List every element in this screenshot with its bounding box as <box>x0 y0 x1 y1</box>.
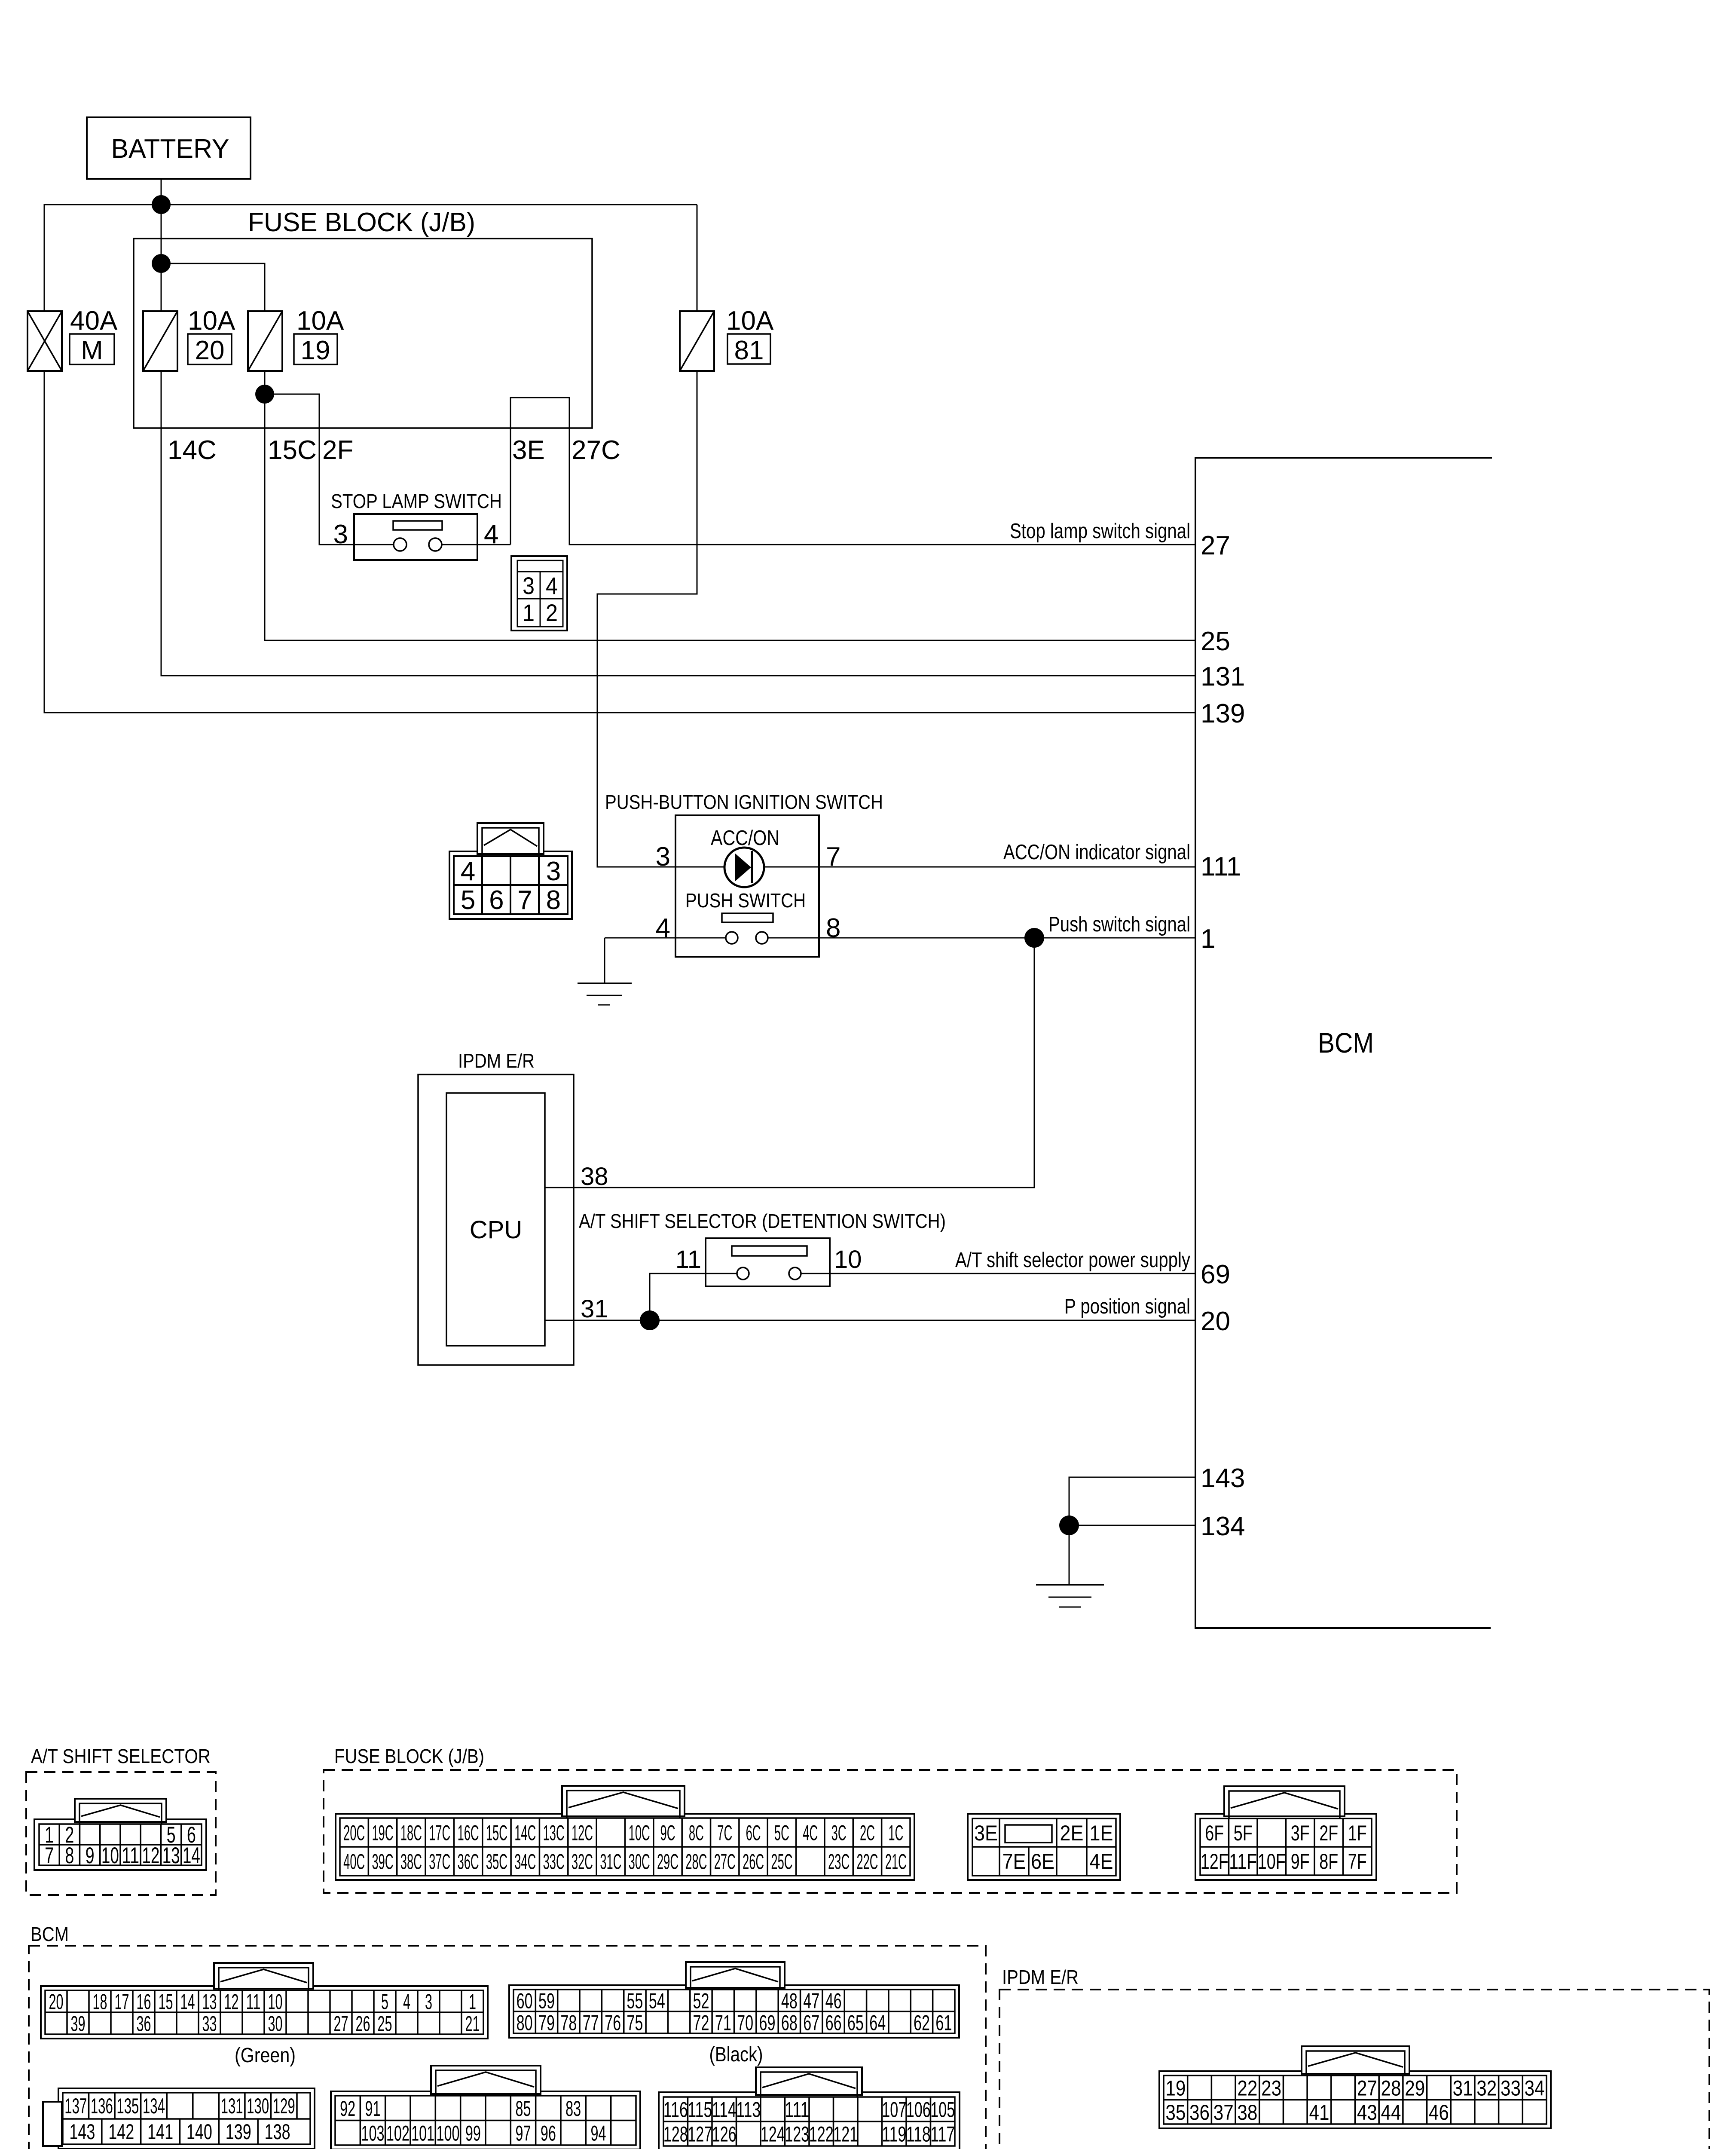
svg-text:40A: 40A <box>70 306 118 336</box>
svg-text:19: 19 <box>1165 2076 1186 2100</box>
svg-text:8: 8 <box>65 1843 74 1868</box>
svg-text:81: 81 <box>734 336 764 365</box>
svg-text:(Green): (Green) <box>235 2044 296 2067</box>
svg-text:14: 14 <box>180 1990 195 2014</box>
svg-text:41: 41 <box>1309 2100 1329 2125</box>
svg-text:11F: 11F <box>1229 1849 1257 1873</box>
svg-text:M: M <box>81 336 103 365</box>
svg-text:A/T SHIFT SELECTOR (DETENTION: A/T SHIFT SELECTOR (DETENTION SWITCH) <box>579 1210 946 1232</box>
svg-text:A/T shift selector power suppl: A/T shift selector power supply <box>955 1249 1190 1272</box>
svg-text:94: 94 <box>591 2121 606 2145</box>
svg-text:111: 111 <box>1201 852 1241 882</box>
svg-text:79: 79 <box>538 2011 555 2035</box>
svg-text:10A: 10A <box>188 306 235 336</box>
svg-text:1: 1 <box>1201 924 1215 954</box>
svg-text:1F: 1F <box>1348 1821 1367 1845</box>
svg-text:34C: 34C <box>514 1850 536 1874</box>
svg-text:13: 13 <box>162 1843 180 1868</box>
svg-text:12C: 12C <box>572 1821 593 1845</box>
svg-text:54: 54 <box>649 1989 665 2013</box>
svg-text:137: 137 <box>64 2094 87 2118</box>
svg-text:29: 29 <box>1405 2076 1425 2100</box>
svg-text:23: 23 <box>1261 2076 1281 2100</box>
svg-text:ACC/ON indicator signal: ACC/ON indicator signal <box>1003 841 1190 864</box>
svg-text:118: 118 <box>906 2122 931 2146</box>
svg-text:8: 8 <box>546 885 561 915</box>
svg-text:126: 126 <box>712 2122 737 2146</box>
svg-text:27: 27 <box>1201 531 1230 560</box>
svg-text:22C: 22C <box>856 1850 878 1874</box>
svg-text:5: 5 <box>381 1990 388 2014</box>
svg-text:140: 140 <box>186 2120 212 2144</box>
svg-text:96: 96 <box>541 2121 556 2145</box>
svg-text:13: 13 <box>202 1990 217 2014</box>
svg-text:31C: 31C <box>600 1850 621 1874</box>
svg-text:139: 139 <box>1201 699 1245 729</box>
svg-text:105: 105 <box>930 2098 955 2122</box>
svg-text:4C: 4C <box>803 1821 818 1845</box>
svg-text:43: 43 <box>1357 2100 1377 2125</box>
svg-text:47: 47 <box>803 1989 819 2013</box>
svg-text:4: 4 <box>403 1990 410 2014</box>
svg-text:14C: 14C <box>514 1821 536 1845</box>
svg-text:64: 64 <box>869 2011 886 2035</box>
svg-text:4: 4 <box>461 857 475 886</box>
svg-text:80: 80 <box>517 2011 533 2035</box>
svg-text:5C: 5C <box>774 1821 789 1845</box>
svg-text:31: 31 <box>581 1295 608 1323</box>
svg-text:21: 21 <box>465 2012 480 2036</box>
svg-text:1: 1 <box>469 1990 476 2014</box>
svg-text:16C: 16C <box>458 1821 479 1845</box>
svg-text:38: 38 <box>1237 2100 1257 2125</box>
svg-text:4: 4 <box>546 572 558 599</box>
svg-text:P position signal: P position signal <box>1064 1295 1190 1318</box>
svg-text:CPU: CPU <box>470 1216 522 1244</box>
svg-text:36: 36 <box>1189 2100 1210 2125</box>
svg-text:BCM: BCM <box>1318 1027 1374 1059</box>
svg-text:2E: 2E <box>1060 1821 1084 1845</box>
svg-text:134: 134 <box>1201 1512 1245 1541</box>
svg-text:28: 28 <box>1381 2076 1401 2100</box>
svg-text:124: 124 <box>761 2122 785 2146</box>
svg-text:ACC/ON: ACC/ON <box>711 827 779 850</box>
svg-text:1: 1 <box>523 599 535 626</box>
svg-text:9C: 9C <box>660 1821 675 1845</box>
svg-text:99: 99 <box>465 2121 481 2145</box>
svg-text:7: 7 <box>45 1843 54 1868</box>
svg-text:25C: 25C <box>771 1850 792 1874</box>
svg-text:2F: 2F <box>322 435 353 465</box>
svg-text:25: 25 <box>1201 627 1230 656</box>
svg-text:7E: 7E <box>1002 1849 1026 1873</box>
svg-text:46: 46 <box>825 1989 842 2013</box>
svg-text:44: 44 <box>1381 2100 1401 2125</box>
svg-text:6C: 6C <box>746 1821 761 1845</box>
svg-text:11: 11 <box>122 1843 139 1868</box>
svg-text:136: 136 <box>91 2094 113 2118</box>
svg-text:114: 114 <box>712 2098 737 2122</box>
svg-text:10A: 10A <box>726 306 774 336</box>
svg-text:7: 7 <box>826 842 840 872</box>
svg-text:7F: 7F <box>1348 1849 1367 1873</box>
svg-text:(Black): (Black) <box>709 2043 763 2066</box>
svg-text:68: 68 <box>781 2011 798 2035</box>
svg-text:143: 143 <box>1201 1463 1245 1493</box>
svg-text:111: 111 <box>785 2098 809 2122</box>
svg-text:10C: 10C <box>629 1821 650 1845</box>
svg-text:25: 25 <box>378 2012 392 2036</box>
svg-text:102: 102 <box>386 2121 410 2145</box>
svg-text:101: 101 <box>411 2121 434 2145</box>
svg-text:20: 20 <box>1201 1307 1230 1336</box>
svg-text:3F: 3F <box>1291 1821 1310 1845</box>
svg-text:75: 75 <box>627 2011 643 2035</box>
svg-text:26: 26 <box>356 2012 370 2036</box>
svg-text:12: 12 <box>224 1990 239 2014</box>
svg-text:15C: 15C <box>486 1821 507 1845</box>
svg-text:130: 130 <box>247 2094 269 2118</box>
svg-text:28C: 28C <box>685 1850 707 1874</box>
svg-text:FUSE BLOCK (J/B): FUSE BLOCK (J/B) <box>334 1745 484 1767</box>
svg-text:3: 3 <box>523 572 535 599</box>
svg-text:3E: 3E <box>974 1821 998 1845</box>
svg-text:69: 69 <box>1201 1260 1230 1289</box>
svg-text:11: 11 <box>675 1246 701 1273</box>
svg-text:52: 52 <box>693 1989 709 2013</box>
svg-text:38C: 38C <box>400 1850 422 1874</box>
svg-text:116: 116 <box>663 2098 688 2122</box>
svg-text:4: 4 <box>484 520 498 549</box>
svg-text:32C: 32C <box>572 1850 593 1874</box>
svg-text:PUSH SWITCH: PUSH SWITCH <box>685 889 806 912</box>
svg-text:27: 27 <box>1357 2076 1377 2100</box>
svg-text:4E: 4E <box>1090 1849 1113 1873</box>
svg-text:Push switch signal: Push switch signal <box>1048 913 1190 936</box>
svg-text:3: 3 <box>333 520 348 549</box>
svg-text:23C: 23C <box>828 1850 850 1874</box>
svg-text:77: 77 <box>583 2011 599 2035</box>
svg-text:139: 139 <box>226 2120 251 2144</box>
svg-text:37C: 37C <box>429 1850 450 1874</box>
svg-text:121: 121 <box>833 2122 858 2146</box>
svg-text:10: 10 <box>268 1990 283 2014</box>
svg-text:9F: 9F <box>1291 1849 1310 1873</box>
svg-text:107: 107 <box>882 2098 906 2122</box>
svg-text:100: 100 <box>437 2121 460 2145</box>
svg-text:35C: 35C <box>486 1850 507 1874</box>
svg-text:27: 27 <box>334 2012 348 2036</box>
svg-text:106: 106 <box>906 2098 931 2122</box>
svg-text:122: 122 <box>809 2122 834 2146</box>
svg-text:103: 103 <box>361 2121 385 2145</box>
svg-text:19C: 19C <box>372 1821 394 1845</box>
svg-text:18: 18 <box>93 1990 107 2014</box>
svg-text:142: 142 <box>108 2120 134 2144</box>
svg-text:69: 69 <box>759 2011 776 2035</box>
svg-text:BATTERY: BATTERY <box>111 134 229 164</box>
svg-text:4: 4 <box>656 913 670 943</box>
svg-text:A/T SHIFT SELECTOR: A/T SHIFT SELECTOR <box>31 1745 211 1767</box>
svg-text:134: 134 <box>143 2094 165 2118</box>
svg-text:14C: 14C <box>168 435 217 465</box>
svg-text:27C: 27C <box>572 435 620 465</box>
svg-text:127: 127 <box>688 2122 712 2146</box>
svg-text:115: 115 <box>688 2098 712 2122</box>
svg-text:131: 131 <box>1201 662 1245 692</box>
svg-text:143: 143 <box>69 2120 95 2144</box>
svg-text:59: 59 <box>538 1989 555 2013</box>
svg-text:36: 36 <box>137 2012 151 2036</box>
svg-text:1C: 1C <box>888 1821 903 1845</box>
svg-text:117: 117 <box>930 2122 955 2146</box>
svg-text:Stop lamp switch signal: Stop lamp switch signal <box>1010 520 1190 543</box>
svg-text:15C: 15C <box>268 435 317 465</box>
svg-text:72: 72 <box>693 2011 709 2035</box>
svg-text:39C: 39C <box>372 1850 394 1874</box>
svg-text:2: 2 <box>546 599 558 626</box>
svg-text:123: 123 <box>785 2122 809 2146</box>
svg-text:36C: 36C <box>458 1850 479 1874</box>
svg-text:3: 3 <box>425 1990 432 2014</box>
svg-text:27C: 27C <box>714 1850 736 1874</box>
svg-text:16: 16 <box>137 1990 151 2014</box>
svg-text:30C: 30C <box>629 1850 650 1874</box>
svg-text:10A: 10A <box>296 306 344 336</box>
svg-text:7C: 7C <box>717 1821 732 1845</box>
svg-text:IPDM E/R: IPDM E/R <box>458 1050 535 1072</box>
svg-text:3C: 3C <box>831 1821 847 1845</box>
svg-text:141: 141 <box>147 2120 173 2144</box>
svg-text:76: 76 <box>605 2011 621 2035</box>
svg-text:129: 129 <box>273 2094 295 2118</box>
svg-text:67: 67 <box>803 2011 819 2035</box>
svg-text:55: 55 <box>627 1989 643 2013</box>
svg-text:5F: 5F <box>1234 1821 1253 1845</box>
svg-text:39: 39 <box>71 2012 86 2036</box>
svg-text:10: 10 <box>101 1843 119 1868</box>
svg-text:91: 91 <box>365 2097 381 2121</box>
svg-text:20: 20 <box>195 336 225 365</box>
svg-text:18C: 18C <box>400 1821 422 1845</box>
svg-text:26C: 26C <box>743 1850 764 1874</box>
svg-text:135: 135 <box>116 2094 139 2118</box>
svg-text:30: 30 <box>268 2012 283 2036</box>
svg-text:37: 37 <box>1213 2100 1234 2125</box>
svg-text:61: 61 <box>935 2011 952 2035</box>
svg-text:60: 60 <box>517 1989 533 2013</box>
svg-text:2F: 2F <box>1319 1821 1338 1845</box>
svg-text:STOP LAMP SWITCH: STOP LAMP SWITCH <box>331 490 502 512</box>
svg-text:10F: 10F <box>1258 1849 1286 1873</box>
svg-text:PUSH-BUTTON IGNITION SWITCH: PUSH-BUTTON IGNITION SWITCH <box>605 791 883 813</box>
svg-text:20: 20 <box>49 1990 64 2014</box>
svg-text:66: 66 <box>825 2011 842 2035</box>
svg-text:62: 62 <box>914 2011 930 2035</box>
svg-text:46: 46 <box>1429 2100 1449 2125</box>
svg-text:40C: 40C <box>343 1850 365 1874</box>
svg-text:78: 78 <box>560 2011 577 2035</box>
svg-text:131: 131 <box>221 2094 243 2118</box>
svg-text:29C: 29C <box>657 1850 679 1874</box>
svg-text:3: 3 <box>546 857 561 886</box>
svg-text:9: 9 <box>86 1843 95 1868</box>
svg-text:34: 34 <box>1525 2076 1545 2100</box>
svg-text:15: 15 <box>159 1990 173 2014</box>
svg-text:119: 119 <box>882 2122 906 2146</box>
svg-text:33: 33 <box>1501 2076 1521 2100</box>
svg-text:7: 7 <box>517 885 532 915</box>
svg-text:12: 12 <box>142 1843 159 1868</box>
svg-text:BCM: BCM <box>31 1923 69 1945</box>
svg-text:85: 85 <box>516 2097 531 2121</box>
svg-text:10: 10 <box>834 1246 862 1273</box>
svg-text:6E: 6E <box>1031 1849 1054 1873</box>
svg-text:65: 65 <box>847 2011 864 2035</box>
svg-text:2C: 2C <box>860 1821 875 1845</box>
svg-text:1E: 1E <box>1090 1821 1113 1845</box>
svg-text:113: 113 <box>736 2098 761 2122</box>
svg-text:22: 22 <box>1237 2076 1257 2100</box>
svg-text:14: 14 <box>183 1843 200 1868</box>
svg-text:19: 19 <box>301 336 330 365</box>
svg-text:71: 71 <box>715 2011 731 2035</box>
svg-text:38: 38 <box>581 1163 608 1191</box>
svg-text:48: 48 <box>781 1989 798 2013</box>
svg-text:13C: 13C <box>543 1821 565 1845</box>
svg-text:5: 5 <box>461 885 475 915</box>
svg-text:83: 83 <box>565 2097 581 2121</box>
svg-text:33C: 33C <box>543 1850 565 1874</box>
svg-text:8C: 8C <box>689 1821 704 1845</box>
svg-text:97: 97 <box>516 2121 531 2145</box>
svg-text:128: 128 <box>663 2122 688 2146</box>
svg-text:92: 92 <box>340 2097 355 2121</box>
svg-text:70: 70 <box>737 2011 753 2035</box>
svg-text:6F: 6F <box>1205 1821 1224 1845</box>
svg-text:20C: 20C <box>343 1821 365 1845</box>
svg-text:12F: 12F <box>1201 1849 1229 1873</box>
svg-text:31: 31 <box>1453 2076 1473 2100</box>
svg-text:33: 33 <box>202 2012 217 2036</box>
svg-text:IPDM E/R: IPDM E/R <box>1002 1966 1079 1988</box>
svg-text:17: 17 <box>115 1990 129 2014</box>
svg-text:21C: 21C <box>885 1850 907 1874</box>
svg-text:8: 8 <box>826 913 840 943</box>
svg-text:17C: 17C <box>429 1821 450 1845</box>
svg-text:3: 3 <box>656 842 670 872</box>
svg-text:FUSE BLOCK (J/B): FUSE BLOCK (J/B) <box>248 208 475 237</box>
svg-text:138: 138 <box>265 2120 290 2144</box>
svg-text:11: 11 <box>246 1990 261 2014</box>
svg-text:6: 6 <box>489 885 504 915</box>
svg-text:3E: 3E <box>512 435 545 465</box>
svg-text:8F: 8F <box>1319 1849 1338 1873</box>
svg-text:35: 35 <box>1165 2100 1186 2125</box>
svg-text:32: 32 <box>1476 2076 1497 2100</box>
